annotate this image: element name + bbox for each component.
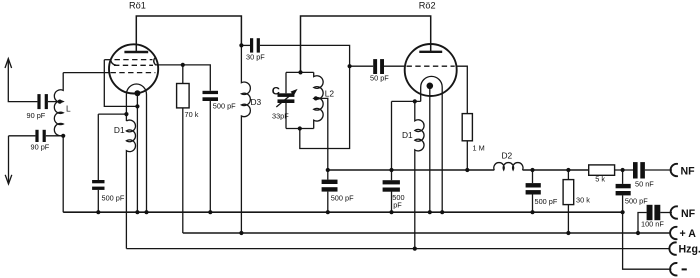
svg-text:Rö1: Rö1 — [129, 1, 146, 11]
svg-text:100 nF: 100 nF — [641, 220, 664, 229]
svg-text:30 pF: 30 pF — [246, 53, 265, 62]
svg-text:30 k: 30 k — [576, 196, 590, 205]
svg-text:500 pF: 500 pF — [625, 196, 648, 205]
svg-text:500 pF: 500 pF — [213, 102, 236, 111]
svg-text:D1: D1 — [402, 130, 413, 140]
svg-text:L2: L2 — [325, 89, 335, 99]
svg-text:5 k: 5 k — [595, 175, 605, 184]
svg-text:Rö2: Rö2 — [419, 1, 436, 11]
svg-text:NF: NF — [681, 165, 696, 177]
svg-text:50 pF: 50 pF — [370, 73, 389, 82]
svg-text:D2: D2 — [502, 151, 513, 161]
svg-text:1 M: 1 M — [473, 144, 485, 153]
svg-text:90 pF: 90 pF — [31, 143, 50, 152]
svg-text:500 pF: 500 pF — [535, 197, 558, 206]
svg-text:Hzg.: Hzg. — [679, 243, 700, 255]
svg-text:33pF: 33pF — [272, 112, 289, 121]
svg-text:NF: NF — [681, 208, 696, 220]
svg-text:L: L — [66, 104, 71, 114]
svg-text:D3: D3 — [251, 97, 262, 107]
svg-text:70 k: 70 k — [185, 110, 199, 119]
svg-text:90 pF: 90 pF — [27, 111, 46, 120]
svg-text:C: C — [272, 86, 280, 98]
svg-text:+ A: + A — [680, 228, 697, 240]
svg-text:D1: D1 — [114, 125, 125, 135]
svg-text:50 nF: 50 nF — [635, 180, 654, 189]
svg-text:pF: pF — [393, 201, 402, 210]
svg-text:500 pF: 500 pF — [331, 194, 354, 203]
svg-text:500 pF: 500 pF — [102, 194, 125, 203]
